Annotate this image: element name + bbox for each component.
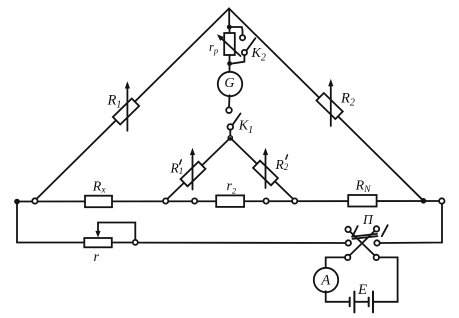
node right arm junction dot bbox=[421, 198, 427, 204]
svg-text:R1: R1 bbox=[170, 161, 184, 176]
svg-text:A: A bbox=[320, 272, 330, 288]
resistor R2 (variable, right arm) bbox=[316, 79, 342, 126]
resistor RN bbox=[348, 195, 376, 207]
svg-text:RN: RN bbox=[355, 179, 372, 195]
svg-text:R1: R1 bbox=[107, 93, 122, 111]
node terminal (right of r2) bbox=[264, 198, 269, 203]
switch K2 bbox=[240, 35, 256, 55]
node terminal (left of r2) bbox=[192, 198, 197, 203]
wire inner right diagonal (node to bus) bbox=[230, 138, 294, 201]
commutator П bridge bar (double line) bbox=[352, 234, 378, 239]
resistor Rx bbox=[85, 196, 112, 208]
galvanometer G bbox=[218, 72, 242, 96]
resistor R1 (variable, left arm) bbox=[113, 81, 139, 131]
node terminal left (open) bbox=[32, 198, 37, 203]
svg-text:G: G bbox=[224, 76, 234, 91]
node bus left corner dot bbox=[14, 199, 20, 205]
wiper arrow of r bbox=[95, 223, 100, 238]
resistor r_p (variable, in galvanometer branch) bbox=[217, 33, 241, 56]
wire battery to commutator bottom-right bbox=[373, 257, 398, 301]
svg-text:r: r bbox=[94, 250, 100, 265]
node top junction dot bbox=[227, 25, 232, 30]
commutator П crossed connections bbox=[349, 231, 375, 256]
wire junction to galvanometer bbox=[229, 64, 231, 72]
wire commutator right to right vertical riser bbox=[380, 204, 442, 243]
node terminal (wiper tap) bbox=[133, 240, 138, 245]
wire ammeter to battery bbox=[326, 291, 350, 302]
svg-text:rp: rp bbox=[209, 40, 218, 56]
svg-text:П: П bbox=[362, 212, 374, 227]
wire r to terminal bbox=[112, 242, 133, 244]
wire left arm of triangle (apex to left bottom corner) bbox=[35, 9, 229, 201]
wire left side down and along bottom to rheostat r bbox=[17, 202, 84, 243]
node terminal (inner right diagonal to bus) bbox=[292, 198, 297, 203]
wire galvanometer to switch K1 bbox=[228, 95, 231, 107]
wire between battery cells bbox=[354, 301, 368, 303]
node terminal (inner left diagonal to bus) bbox=[163, 198, 168, 203]
wire wiper jumper to bus terminal bbox=[98, 223, 135, 240]
commutator П contacts (six terminals) bbox=[345, 226, 380, 260]
svg-text:R2: R2 bbox=[275, 157, 289, 172]
node lower junction dot bbox=[227, 61, 232, 66]
wire junction to switch K2 top contact bbox=[229, 27, 242, 35]
resistor R'2 (variable) bbox=[253, 148, 278, 188]
resistor r2 bbox=[216, 195, 244, 207]
svg-text:R2: R2 bbox=[340, 90, 355, 108]
node bridge apex (small terminal) bbox=[228, 136, 232, 140]
svg-text:K2: K2 bbox=[251, 46, 266, 64]
resistor R'1 (variable) bbox=[181, 148, 206, 190]
wire right arm of triangle (apex to right bottom junction) bbox=[229, 9, 423, 201]
node terminal right (open) bbox=[439, 198, 444, 203]
svg-text:Rx: Rx bbox=[92, 179, 107, 195]
wire apex to top junction bbox=[228, 9, 230, 28]
wire lower bus to commutator left bbox=[138, 242, 346, 244]
battery E (two cells) bbox=[350, 292, 373, 313]
wire K1 to bridge node bbox=[229, 130, 231, 136]
wire inner left diagonal (node to bus) bbox=[166, 138, 231, 201]
svg-text:r2: r2 bbox=[227, 179, 237, 196]
svg-text:E: E bbox=[357, 282, 367, 298]
rheostat r (potentiometer) bbox=[84, 238, 112, 247]
wire r_p bottom to lower junction bbox=[229, 55, 231, 64]
ammeter A bbox=[314, 268, 338, 292]
wire main bus (left corner to right terminal) bbox=[17, 200, 442, 203]
wire K2 bottom contact to lower junction bbox=[232, 55, 245, 64]
commutator П blade left bbox=[353, 226, 358, 236]
wire junction to r_p resistor top bbox=[229, 27, 231, 33]
wire commutator bottom-left to ammeter bbox=[326, 257, 345, 268]
svg-text:K1: K1 bbox=[238, 119, 253, 137]
commutator П blade right bbox=[382, 225, 388, 236]
switch K1 bbox=[226, 107, 240, 129]
